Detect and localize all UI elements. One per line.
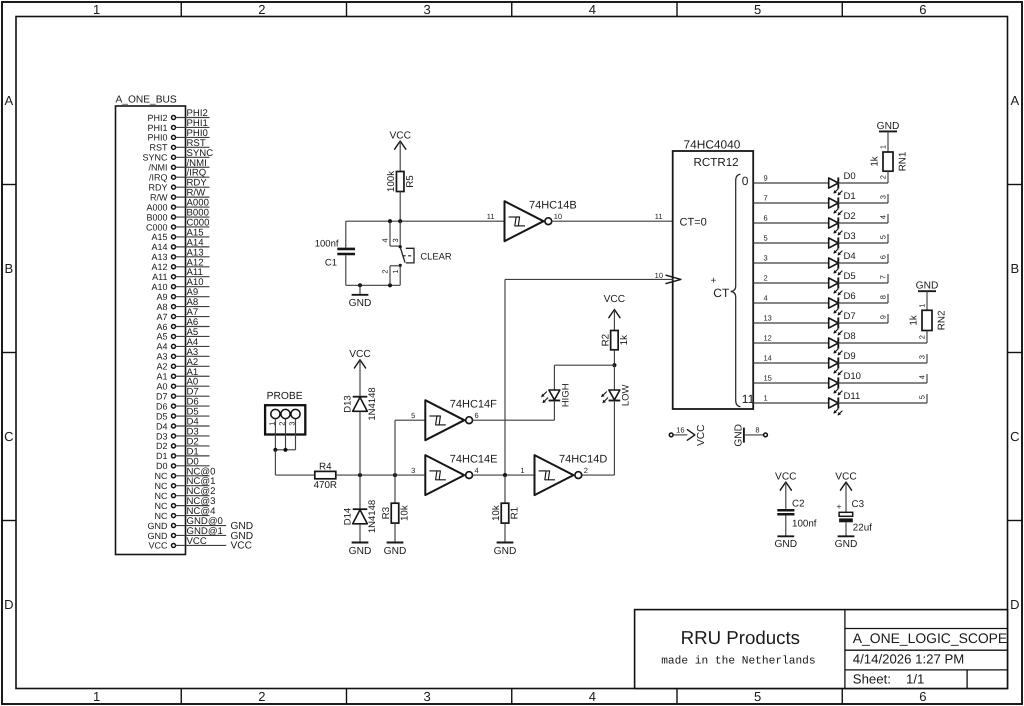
connector pin PHI2 / net PHI2 xyxy=(147,108,209,123)
wire D13 to node xyxy=(359,412,361,476)
inverter U1F 74HC14F xyxy=(411,399,497,441)
wire LED D7 cathode xyxy=(838,322,888,324)
svg-text:3: 3 xyxy=(391,238,400,242)
svg-text:7: 7 xyxy=(878,275,887,279)
diode D13 1N4148 xyxy=(343,387,379,420)
svg-text:LOW: LOW xyxy=(621,384,632,406)
junction E output node xyxy=(503,473,507,477)
RN2 pin 5 xyxy=(917,394,927,403)
svg-text:100nf: 100nf xyxy=(792,519,817,530)
LED D3 xyxy=(829,231,856,255)
wire R4 to node xyxy=(336,474,426,476)
svg-text:R2: R2 xyxy=(600,334,611,347)
RN1 pin 8 xyxy=(878,294,888,303)
svg-text:1: 1 xyxy=(917,304,926,308)
power VCC for C3 xyxy=(835,471,857,512)
svg-text:2: 2 xyxy=(764,274,768,283)
svg-text:GND: GND xyxy=(148,531,169,541)
svg-text:3: 3 xyxy=(411,466,415,475)
svg-text:13: 13 xyxy=(764,314,772,323)
power GND at counter pin 8 xyxy=(733,424,744,447)
svg-text:D1: D1 xyxy=(844,191,856,202)
svg-text:R1: R1 xyxy=(510,507,521,520)
counter output pin 3 wire to LED D4 xyxy=(753,254,829,263)
wire R5 to node xyxy=(399,192,401,222)
svg-text:D4: D4 xyxy=(844,251,856,262)
svg-text:A8: A8 xyxy=(156,302,167,312)
svg-text:4: 4 xyxy=(475,466,479,475)
svg-text:VCC: VCC xyxy=(835,471,857,482)
wire HIGH cathode xyxy=(553,401,555,421)
svg-text:made in the Netherlands: made in the Netherlands xyxy=(661,655,815,668)
LED D4 xyxy=(829,251,856,275)
counter output pin 14 wire to LED D9 xyxy=(753,354,829,363)
counter output pin 15 wire to LED D10 xyxy=(753,374,829,383)
wire probe pin1 xyxy=(274,419,276,450)
connector J1 A_ONE_BUS xyxy=(116,95,186,555)
svg-text:C2: C2 xyxy=(792,499,805,510)
svg-text:1: 1 xyxy=(391,270,400,274)
svg-text:D1: D1 xyxy=(156,451,168,461)
svg-text:1: 1 xyxy=(520,466,524,475)
connector pin D3 / net D3 xyxy=(156,426,210,441)
connector pin A12 / net A12 xyxy=(151,257,209,272)
counter output pin 9 wire to LED D0 xyxy=(753,174,829,183)
counter output pin 1 wire to LED D11 xyxy=(753,394,829,403)
junction at GND stub xyxy=(358,283,362,287)
wire probe tie xyxy=(275,449,295,451)
svg-text:CT: CT xyxy=(713,286,730,300)
junction R2 node xyxy=(612,363,616,367)
capacitor C2 100nf xyxy=(777,499,816,530)
svg-text:C: C xyxy=(1010,429,1019,444)
LED D10 xyxy=(829,371,861,395)
svg-text:2: 2 xyxy=(258,689,265,704)
wire 74HC14B output to counter xyxy=(552,220,673,222)
svg-text:R4: R4 xyxy=(319,461,332,472)
svg-text:6: 6 xyxy=(475,411,479,420)
svg-text:3: 3 xyxy=(764,254,768,263)
svg-text:A12: A12 xyxy=(151,262,167,272)
counter U2 74HC4040 RCTR12 xyxy=(673,137,754,409)
inverter U1E 74HC14E xyxy=(411,454,497,496)
svg-text:PROBE: PROBE xyxy=(267,391,303,402)
junction probe pin2 xyxy=(283,448,287,452)
svg-text:NC: NC xyxy=(155,471,168,481)
svg-text:12: 12 xyxy=(764,334,772,343)
svg-text:HIGH: HIGH xyxy=(561,383,572,407)
counter pin 10 clock input xyxy=(655,271,681,284)
svg-text:A_ONE_LOGIC_SCOPE: A_ONE_LOGIC_SCOPE xyxy=(853,630,1007,646)
svg-text:A2: A2 xyxy=(156,362,167,372)
wire probe pin3 xyxy=(295,419,297,450)
connector pin NC / net NC@1 xyxy=(155,476,216,491)
counter output pin 5 wire to LED D3 xyxy=(753,234,829,243)
ground below D14 xyxy=(349,543,372,557)
wire R2 to node xyxy=(613,350,615,365)
svg-text:9: 9 xyxy=(878,315,887,319)
svg-text:D3: D3 xyxy=(844,231,856,242)
svg-text:D6: D6 xyxy=(156,401,168,411)
svg-text:D7: D7 xyxy=(844,311,856,322)
wire probe to R4 xyxy=(275,474,314,476)
svg-text:A7: A7 xyxy=(156,312,167,322)
wire LED D3 cathode xyxy=(838,242,888,244)
connector pin A2 / net A2 xyxy=(156,357,209,372)
wire 74HC14E output to 74HC14D input xyxy=(473,474,535,476)
svg-text:4: 4 xyxy=(917,375,926,379)
svg-text:D9: D9 xyxy=(844,351,856,362)
svg-text:CT=0: CT=0 xyxy=(680,216,707,228)
svg-text:NC: NC xyxy=(155,491,168,501)
connector pin /IRQ / net /IRQ xyxy=(149,168,210,183)
connector pin A3 / net A3 xyxy=(156,347,209,362)
counter output pin 13 wire to LED D7 xyxy=(753,314,829,323)
svg-text:D6: D6 xyxy=(844,291,856,302)
svg-text:PHI1: PHI1 xyxy=(147,123,167,133)
resistor R3 10k xyxy=(381,503,411,523)
svg-text:D4: D4 xyxy=(156,421,168,431)
svg-text:D10: D10 xyxy=(844,371,861,382)
svg-text:4: 4 xyxy=(381,238,390,242)
svg-text:5: 5 xyxy=(754,689,761,704)
svg-text:1: 1 xyxy=(93,689,100,704)
wire LED D8 cathode xyxy=(838,342,927,344)
resistor R5 100k xyxy=(386,171,416,192)
svg-text:A10: A10 xyxy=(151,282,167,292)
svg-text:11: 11 xyxy=(742,392,755,406)
svg-text:VCC: VCC xyxy=(349,349,371,360)
svg-text:D7: D7 xyxy=(156,391,168,401)
svg-text:9: 9 xyxy=(764,174,768,183)
svg-text:3: 3 xyxy=(423,689,430,704)
connector pin /NMI / net /NMI xyxy=(149,158,210,173)
svg-text:RDY: RDY xyxy=(148,182,167,192)
svg-text:RN1: RN1 xyxy=(897,152,908,172)
LED D0 xyxy=(829,171,856,195)
svg-text:3: 3 xyxy=(878,195,887,199)
svg-text:1k: 1k xyxy=(909,315,920,325)
power VCC for C2 xyxy=(775,471,797,509)
svg-text:8: 8 xyxy=(878,295,887,299)
title block xyxy=(635,610,1008,689)
LED D1 xyxy=(829,191,856,215)
connector pin R/W / net R/W xyxy=(150,188,210,203)
svg-text:A: A xyxy=(1010,93,1019,108)
svg-text:2: 2 xyxy=(878,175,887,179)
svg-text:D0: D0 xyxy=(156,461,168,471)
svg-text:10k: 10k xyxy=(400,505,411,521)
svg-text:GND: GND xyxy=(916,281,939,292)
svg-text:10: 10 xyxy=(554,212,562,221)
svg-text:VCC: VCC xyxy=(389,130,411,141)
svg-text:Sheet:: Sheet: xyxy=(853,671,891,686)
wire LED D1 cathode xyxy=(838,202,888,204)
svg-text:5: 5 xyxy=(764,234,768,243)
connector pin D0 / net D0 xyxy=(156,456,210,471)
svg-text:3: 3 xyxy=(917,355,926,359)
svg-text:470R: 470R xyxy=(314,480,337,491)
svg-text:VCC: VCC xyxy=(775,471,797,482)
svg-text:B: B xyxy=(4,261,13,276)
wire clock riser xyxy=(504,279,506,475)
connector pin C000 / net C000 xyxy=(146,217,210,232)
svg-text:15: 15 xyxy=(764,374,772,383)
wire to HIGH anode xyxy=(553,365,555,390)
svg-text:RST: RST xyxy=(150,143,169,153)
svg-text:2: 2 xyxy=(381,270,390,274)
junction probe pin1 xyxy=(273,448,277,452)
svg-text:C000: C000 xyxy=(146,222,168,232)
wire probe down xyxy=(274,450,276,475)
svg-text:A4: A4 xyxy=(156,342,167,352)
connector pin PHI1 / net PHI1 xyxy=(147,118,209,133)
connector pin A14 / net A14 xyxy=(151,237,209,252)
wire LED D6 cathode xyxy=(838,302,888,304)
svg-text:10: 10 xyxy=(655,271,663,280)
wire LED D5 cathode xyxy=(838,282,888,284)
svg-text:VCC: VCC xyxy=(231,541,253,552)
svg-text:VCC: VCC xyxy=(187,536,207,547)
svg-text:D2: D2 xyxy=(844,211,856,222)
power VCC for R2 xyxy=(604,294,626,331)
svg-text:B: B xyxy=(1010,261,1019,276)
inverter U1D 74HC14D xyxy=(520,454,607,496)
svg-text:1N4148: 1N4148 xyxy=(367,500,378,533)
LED LOW xyxy=(601,384,631,406)
connector pin A13 / net A13 xyxy=(151,247,209,262)
resistor network RN2 1k xyxy=(909,291,948,343)
svg-text:RN2: RN2 xyxy=(936,311,947,331)
connector pin D4 / net D4 xyxy=(156,417,210,432)
connector pin A10 / net A10 xyxy=(151,277,209,292)
junction at switch pin4 xyxy=(388,219,392,223)
wire to LOW anode xyxy=(613,365,615,390)
svg-text:/IRQ: /IRQ xyxy=(149,173,168,183)
LED D11 xyxy=(829,391,861,415)
svg-text:5: 5 xyxy=(878,235,887,239)
ground below R3 xyxy=(384,523,407,557)
svg-text:PHI2: PHI2 xyxy=(147,113,167,123)
svg-text:11: 11 xyxy=(487,212,495,221)
counter output pin 7 wire to LED D1 xyxy=(753,194,829,203)
power GND above RN1 xyxy=(877,121,900,132)
svg-text:D: D xyxy=(1010,597,1019,612)
svg-text:R5: R5 xyxy=(405,175,416,188)
svg-text:74HC14B: 74HC14B xyxy=(529,200,577,212)
LED D5 xyxy=(829,271,856,295)
svg-text:C3: C3 xyxy=(852,499,865,510)
LED D9 xyxy=(829,351,856,375)
svg-text:GND: GND xyxy=(349,298,372,309)
svg-text:1k: 1k xyxy=(870,156,881,166)
connector pin A6 / net A6 xyxy=(156,317,209,332)
svg-text:6: 6 xyxy=(764,214,768,223)
svg-text:D: D xyxy=(4,597,13,612)
connector pin GND / net GND@1 xyxy=(148,526,254,542)
svg-text:8: 8 xyxy=(755,426,759,435)
wire node to D14 xyxy=(359,475,361,509)
svg-text:D14: D14 xyxy=(343,508,354,525)
RN1 pin 9 xyxy=(878,314,888,323)
resistor R2 1k xyxy=(600,331,630,350)
RN1 pin 5 xyxy=(878,234,888,243)
LED D8 xyxy=(829,331,856,355)
connector pin RST / net RST xyxy=(150,138,210,153)
svg-text:SYNC: SYNC xyxy=(142,153,168,163)
inverter U1B 74HC14B xyxy=(487,200,577,242)
connector pin A15 / net A15 xyxy=(151,227,209,242)
svg-text:1: 1 xyxy=(764,394,768,403)
junction D13/D14 xyxy=(358,473,362,477)
RN2 pin 3 xyxy=(917,354,927,363)
RN1 pin 4 xyxy=(878,214,888,223)
svg-text:A11: A11 xyxy=(152,272,167,282)
svg-text:A6: A6 xyxy=(156,322,167,332)
counter output brace xyxy=(731,174,741,406)
svg-text:10k: 10k xyxy=(491,505,502,521)
wire C3 to ground xyxy=(845,522,847,536)
svg-text:100nf: 100nf xyxy=(315,238,339,249)
RN1 pin 7 xyxy=(878,274,888,283)
power VCC for D13 xyxy=(349,349,371,397)
connector pin RDY / net RDY xyxy=(148,178,209,193)
wire LED D10 cathode xyxy=(838,382,927,384)
svg-text:74HC14D: 74HC14D xyxy=(559,454,607,466)
svg-text:GND: GND xyxy=(774,539,797,550)
svg-text:A1: A1 xyxy=(156,372,167,382)
svg-text:RCTR12: RCTR12 xyxy=(694,156,739,169)
svg-text:D3: D3 xyxy=(156,431,168,441)
svg-text:2: 2 xyxy=(917,335,926,339)
connector J2 PROBE xyxy=(265,391,305,434)
svg-text:1/1: 1/1 xyxy=(906,671,924,686)
junction at R5 / switch pin3 xyxy=(398,219,402,223)
svg-text:GND: GND xyxy=(349,546,372,557)
connector pin D2 / net D2 xyxy=(156,436,210,451)
connector pin GND / net GND@0 xyxy=(148,516,254,532)
counter pin 16 VCC xyxy=(669,426,687,437)
wire LED D4 cathode xyxy=(838,262,888,264)
connector pin A000 / net A000 xyxy=(146,198,209,213)
ground below C2 xyxy=(774,536,797,550)
svg-text:NC: NC xyxy=(155,501,168,511)
wire C1 to bottom rail xyxy=(345,255,347,285)
wire LED D2 cathode xyxy=(838,222,888,224)
svg-text:2: 2 xyxy=(258,2,265,17)
svg-text:C: C xyxy=(4,429,13,444)
wire D14 to ground xyxy=(359,524,361,543)
svg-text:/NMI: /NMI xyxy=(149,163,168,173)
svg-text:GND: GND xyxy=(835,539,858,550)
svg-text:NC: NC xyxy=(155,511,168,521)
connector pin A0 / net A0 xyxy=(156,377,209,392)
svg-text:6: 6 xyxy=(919,689,926,704)
connector pin B000 / net B000 xyxy=(146,208,209,223)
wire node to R3 xyxy=(394,475,396,503)
connector pin D7 / net D7 xyxy=(156,387,210,402)
svg-text:D5: D5 xyxy=(156,411,168,421)
svg-text:A15: A15 xyxy=(151,232,167,242)
wire 74HC14F output xyxy=(473,419,555,421)
svg-text:0: 0 xyxy=(742,174,749,188)
LED D2 xyxy=(829,211,856,235)
svg-text:4: 4 xyxy=(764,294,768,303)
connector pin A1 / net A1 xyxy=(156,367,209,382)
wire bottom rail xyxy=(346,284,400,286)
power VCC at counter pin 16 xyxy=(687,425,707,447)
diode D14 1N4148 xyxy=(343,500,379,533)
svg-text:22uf: 22uf xyxy=(853,523,872,534)
svg-text:A0: A0 xyxy=(156,382,167,392)
svg-text:+: + xyxy=(837,501,842,511)
svg-text:5: 5 xyxy=(411,411,415,420)
svg-text:D2: D2 xyxy=(156,441,168,451)
svg-text:5: 5 xyxy=(917,395,926,399)
connector pin A7 / net A7 xyxy=(156,307,209,322)
svg-text:4: 4 xyxy=(878,215,887,219)
wire C2 to ground xyxy=(785,516,787,537)
power GND above RN2 xyxy=(916,281,939,292)
svg-text:2: 2 xyxy=(584,466,588,475)
connector pin NC / net NC@0 xyxy=(155,466,216,481)
svg-text:4/14/2026 1:27 PM: 4/14/2026 1:27 PM xyxy=(853,652,964,667)
connector pin D1 / net D1 xyxy=(156,446,210,461)
svg-text:7: 7 xyxy=(764,194,768,203)
svg-text:1N4148: 1N4148 xyxy=(367,387,378,420)
svg-text:GND: GND xyxy=(733,424,744,447)
svg-text:VCC: VCC xyxy=(604,294,626,305)
svg-text:5: 5 xyxy=(754,2,761,17)
ground below R1 xyxy=(494,523,517,557)
resistor R1 10k xyxy=(491,503,521,523)
svg-text:D0: D0 xyxy=(844,171,856,182)
RN1 pin 3 xyxy=(878,194,888,203)
junction R3 xyxy=(393,473,397,477)
svg-text:CLEAR: CLEAR xyxy=(420,251,451,262)
svg-text:A5: A5 xyxy=(156,332,167,342)
svg-text:A9: A9 xyxy=(156,292,167,302)
svg-text:74HC4040: 74HC4040 xyxy=(684,137,741,151)
wire node down to C1 xyxy=(345,221,347,247)
svg-text:100k: 100k xyxy=(386,171,397,192)
svg-text:A3: A3 xyxy=(156,352,167,362)
wire node to HIGH branch xyxy=(554,364,614,366)
connector pin D5 / net D5 xyxy=(156,407,210,422)
svg-text:RRU Products: RRU Products xyxy=(681,627,800,648)
connector pin A8 / net A8 xyxy=(156,297,209,312)
svg-text:3: 3 xyxy=(423,2,430,17)
connector pin SYNC / net SYNC xyxy=(142,148,213,163)
connector pin A5 / net A5 xyxy=(156,327,209,342)
connector pin A4 / net A4 xyxy=(156,337,209,352)
svg-text:4: 4 xyxy=(589,689,596,704)
connector pin VCC / net VCC xyxy=(148,536,252,552)
wire riser to 74HC14F input xyxy=(394,420,396,475)
svg-text:1: 1 xyxy=(93,2,100,17)
switch SW1 CLEAR xyxy=(381,221,452,285)
wire node to R1 xyxy=(504,475,506,503)
LED HIGH xyxy=(541,383,571,407)
svg-text:GND: GND xyxy=(877,121,900,132)
connector pin NC / net NC@4 xyxy=(155,506,217,521)
svg-text:74HC14F: 74HC14F xyxy=(450,399,497,411)
svg-text:B000: B000 xyxy=(146,212,167,222)
wire to 74HC14F input xyxy=(395,419,425,421)
LED D6 xyxy=(829,291,856,315)
svg-text:D5: D5 xyxy=(844,271,856,282)
counter output pin 2 wire to LED D5 xyxy=(753,274,829,283)
